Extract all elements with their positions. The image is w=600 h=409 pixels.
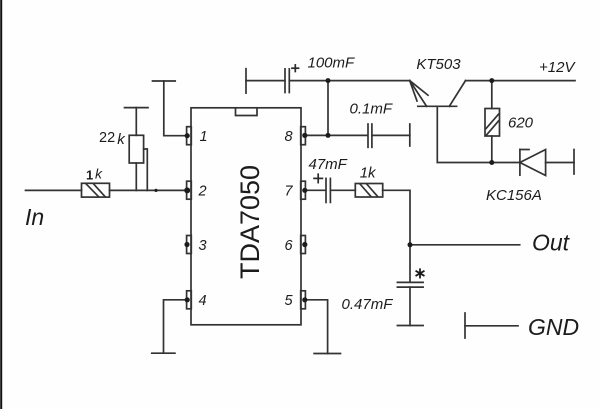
capacitor C3 47mF xyxy=(326,178,330,202)
terminal bar right of zener xyxy=(573,150,575,175)
svg-text:47mF: 47mF xyxy=(309,156,348,173)
terminal bar left of C1 xyxy=(245,69,247,93)
svg-text:TDA7050: TDA7050 xyxy=(235,165,265,279)
pin 8 stub xyxy=(301,127,306,145)
resistor R4 1k xyxy=(355,184,382,198)
junction dot pin5 xyxy=(302,297,307,302)
wire input to R1 xyxy=(26,189,82,191)
wire pin4 to ground xyxy=(164,300,187,353)
wire R1 to pin2 xyxy=(110,189,187,191)
pin 6 stub xyxy=(301,236,306,254)
svg-text:+12V: +12V xyxy=(539,59,576,76)
svg-text:2: 2 xyxy=(197,184,206,200)
svg-text:k: k xyxy=(95,165,103,181)
capacitor C4 0.47mF xyxy=(397,282,423,287)
junction dot zener rail xyxy=(489,160,494,165)
svg-text:100mF: 100mF xyxy=(308,55,356,72)
wire 620 bottom lead xyxy=(491,136,493,163)
wire 620 top lead xyxy=(491,81,493,109)
svg-text:1: 1 xyxy=(199,129,207,145)
svg-text:620: 620 xyxy=(508,114,534,131)
junction dot pin3 xyxy=(184,242,189,247)
wire junction vertical to pin8 rail xyxy=(327,81,329,136)
svg-text:6: 6 xyxy=(284,238,293,254)
junction dot 12V rail xyxy=(489,78,494,83)
svg-text:Out: Out xyxy=(532,230,571,256)
wire pin8 to C2 xyxy=(305,134,367,136)
svg-text:KC156A: KC156A xyxy=(486,187,542,204)
wire C1 to transistor emitter xyxy=(289,80,409,82)
junction dot wire small xyxy=(154,189,157,192)
wire C3 to R4 xyxy=(330,189,355,191)
wire terminal to C1 xyxy=(246,80,285,82)
terminal bar right of C2 xyxy=(409,124,411,146)
svg-text:5: 5 xyxy=(284,293,293,309)
svg-text:GND: GND xyxy=(528,314,579,340)
wire base lead down xyxy=(437,106,520,162)
svg-text:3: 3 xyxy=(198,238,206,254)
junction dot pin7 xyxy=(302,188,307,193)
svg-text:7: 7 xyxy=(284,184,293,200)
junction dot pin8 xyxy=(302,133,307,138)
capacitor C2 0.1mF xyxy=(368,124,372,147)
terminal bar above pin1 xyxy=(153,80,176,82)
pin 2 stub xyxy=(187,181,192,199)
wire 22k side tap xyxy=(144,149,148,190)
left page border xyxy=(0,0,2,409)
svg-text:KT503: KT503 xyxy=(416,56,461,73)
svg-text:8: 8 xyxy=(284,129,292,145)
junction dot pin8 rail xyxy=(326,133,331,138)
resistor R2 22k xyxy=(129,135,143,163)
transistor Q1 KT503 xyxy=(410,81,466,107)
wire zener to terminal xyxy=(546,162,574,164)
svg-text:1k: 1k xyxy=(360,164,377,181)
wire terminal to pin1 xyxy=(164,81,187,136)
label asterisk for C4 xyxy=(416,269,423,277)
junction dot pin4 xyxy=(185,297,190,302)
pin 1 stub xyxy=(187,127,192,145)
wire output to Out xyxy=(410,244,520,246)
resistor R3 620 xyxy=(485,109,500,137)
wire output node to C4 xyxy=(409,245,411,282)
wire pin5 to ground xyxy=(305,300,327,354)
junction dot pin2 xyxy=(184,187,190,193)
resistor R1 1k xyxy=(82,183,110,197)
svg-text:1: 1 xyxy=(86,168,93,183)
svg-text:22: 22 xyxy=(99,130,115,146)
pin 5 stub xyxy=(301,291,306,309)
GND terminal bar xyxy=(464,313,466,338)
wire R4 to output node xyxy=(383,190,410,245)
plus sign C1 xyxy=(292,65,299,72)
ground bar pin5 xyxy=(314,353,340,355)
wire 22k top lead xyxy=(135,108,137,136)
pin 4 stub xyxy=(187,291,192,309)
wire C2 to terminal xyxy=(372,134,410,136)
svg-text:0.47mF: 0.47mF xyxy=(342,296,394,313)
terminal bar below C4 xyxy=(397,325,423,327)
wire GND xyxy=(465,325,518,327)
terminal bar above 22k xyxy=(125,107,149,109)
pin 3 stub xyxy=(187,236,192,254)
plus sign C3 xyxy=(314,174,322,182)
junction dot pin6 xyxy=(302,242,307,247)
ground bar pin4 xyxy=(152,352,175,354)
zener diode VD1 KC156A xyxy=(520,150,546,176)
svg-text:In: In xyxy=(25,204,44,230)
pin 7 stub xyxy=(301,181,306,199)
IC notch mark xyxy=(236,108,258,116)
wire C4 bottom lead xyxy=(409,287,411,325)
wire 22k bottom lead xyxy=(135,163,137,190)
IC U1 TDA7050 body xyxy=(191,108,301,325)
junction dot C1 rail xyxy=(326,78,331,83)
wire collector to +12V xyxy=(466,80,576,82)
junction dot pin1 xyxy=(185,133,190,138)
capacitor C1 100mF xyxy=(285,69,289,93)
svg-text:0.1mF: 0.1mF xyxy=(350,101,393,118)
svg-text:4: 4 xyxy=(198,293,206,309)
wire pin7 to C3 xyxy=(305,189,325,191)
junction dot output node xyxy=(408,242,413,247)
